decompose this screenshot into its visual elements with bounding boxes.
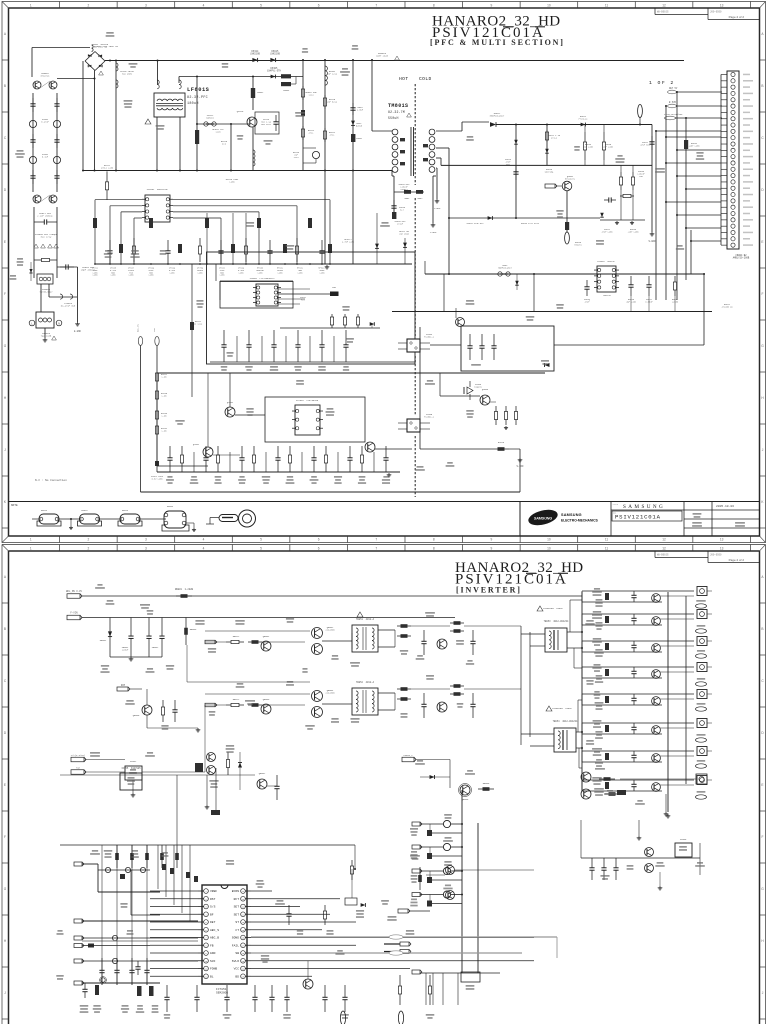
svg-text:COLD: COLD (419, 76, 432, 82)
resistor LN802 dark (252, 77, 254, 111)
svg-text:MBRF10L45CT: MBRF10L45CT (490, 115, 505, 118)
ladder cell 6 wire lower (582, 733, 662, 735)
svg-text:L43B: L43B (230, 181, 236, 184)
net flag riser divider (155, 337, 159, 346)
svg-text:TAC-110B: TAC-110B (41, 335, 52, 338)
svg-text:LN804: LN804 (283, 89, 290, 92)
wire TB853 secondary out fan (567, 631, 582, 633)
svg-text:L203B: L203B (672, 300, 679, 303)
wire TB854 secondary out fan (576, 731, 582, 733)
bridge rectifier DB801 (85, 52, 95, 62)
wire right riser x686 (685, 118, 687, 280)
svg-text:9: 9 (490, 538, 492, 542)
svg-text:TB854 4012-001234: TB854 4012-001234 (553, 720, 578, 723)
svg-text:220uF: 220uF (122, 649, 129, 652)
svg-text:4NF L43B: 4NF L43B (626, 300, 636, 303)
svg-text:12: 12 (662, 4, 666, 8)
svg-text:B 5VR: B 5VR (669, 101, 677, 104)
transformer TB853 (545, 628, 567, 652)
svg-text:F: F (4, 835, 6, 839)
svg-text:L43B: L43B (129, 274, 135, 277)
capacitor CB853 (161, 618, 163, 637)
wire riser x355 junction (354, 845, 356, 869)
svg-text:RB02: RB02 (418, 197, 424, 200)
net flag gnd row (74, 981, 82, 985)
ICT851 pin circles left (204, 889, 209, 894)
wire gray drop x557 (556, 937, 558, 958)
svg-text:B: B (4, 84, 6, 88)
svg-text:F: F (4, 292, 6, 296)
capacitor chain CM819 (515, 125, 517, 219)
ladder cell 3 ballast transistor (652, 644, 661, 653)
transformer TM801S core (410, 127, 412, 176)
ladder cell 6 ballast transistor (652, 726, 661, 735)
transformer TM801S primary (392, 129, 398, 135)
svg-text:LNK520B: LNK520B (270, 53, 280, 56)
svg-text:B: B (4, 627, 6, 631)
opto cell 2 flag (412, 845, 420, 849)
scattered component labels page 1 (17, 150, 24, 152)
svg-text:47uF L43B: 47uF L43B (602, 230, 614, 233)
wire LF801S legs down (156, 117, 158, 171)
svg-text:L43B: L43B (111, 274, 117, 277)
svg-text:QS801: QS801 (227, 401, 234, 404)
isolation dashed line (414, 84, 416, 185)
svg-text:11: 11 (605, 547, 609, 551)
svg-text:2: 2 (87, 4, 89, 8)
net flag CN85A (74, 959, 82, 963)
warning triangle LF801 (145, 119, 151, 124)
ICT851 left wires (150, 890, 198, 892)
svg-text:ICS801 STR-A6159: ICS801 STR-A6159 (296, 399, 319, 402)
snubber box QP816 (255, 112, 279, 134)
gate network upper (205, 630, 310, 632)
lamp loop x303 (303, 147, 316, 149)
ic IC852 small (125, 766, 142, 780)
opto feedback bus B (477, 823, 479, 973)
svg-text:QS802: QS802 (193, 443, 200, 446)
page 2 inner border (9, 550, 760, 552)
svg-text:(C): (C) (222, 143, 226, 146)
resistor RM81G (603, 132, 605, 142)
svg-text:1: 1 (30, 4, 32, 8)
opto cell 3 transistor (420, 870, 443, 872)
ladder cell 1 labels (594, 588, 600, 590)
ladder cell 8 connector (697, 776, 707, 785)
svg-text:SDR18J: SDR18J (206, 117, 215, 120)
svg-text:ICM801 LTV-M6545CLS: ICM801 LTV-M6545CLS (250, 277, 276, 280)
wire TB851 secondary (378, 629, 395, 631)
svg-text:TITLE: TITLE (613, 504, 618, 506)
wire neutral to bridge (57, 78, 95, 80)
ICT851 pin circles right (241, 889, 246, 894)
AC inlet CN801 (36, 312, 54, 328)
wire right riser x666 (665, 106, 667, 300)
svg-text:ABC_S: ABC_S (210, 929, 219, 932)
svg-text:2-GND: 2-GND (430, 231, 437, 234)
svg-text:SVLO: SVLO (232, 960, 239, 963)
opto coupler IC854 (407, 339, 420, 352)
ladder cell 4 wire lower (582, 677, 662, 679)
svg-text:11: 11 (605, 4, 609, 8)
svg-text:6: 6 (318, 547, 320, 551)
svg-text:12: 12 (662, 538, 666, 542)
page 2 revision box top right (654, 551, 656, 558)
svg-text:CT: CT (235, 929, 239, 932)
svg-text:FB8xx: FB8xx (122, 509, 129, 512)
page 1 inner border (9, 8, 760, 536)
wires ICP801 left fan (95, 199, 142, 201)
ladder cell 2 lamp oval (696, 629, 707, 633)
staircase transistors (105, 867, 110, 872)
svg-text:12: 12 (662, 547, 666, 551)
zener cluster mid (238, 763, 242, 768)
capacitor CM81A (393, 200, 395, 206)
ladder cell 7 lamp oval (696, 764, 707, 768)
svg-text:S/S(3.3/5V): S/S(3.3/5V) (71, 754, 85, 757)
opto cell 4 transistor (420, 894, 443, 896)
svg-text:471Lmm 1W: 471Lmm 1W (722, 305, 734, 308)
secondary rail mid (441, 164, 652, 166)
wire b5vr drop (176, 775, 178, 845)
opto cell 4 labels (445, 885, 451, 887)
svg-text:PS2561-1: PS2561-1 (424, 416, 435, 419)
svg-text:ICP801 FAN7527B: ICP801 FAN7527B (146, 188, 168, 191)
svg-text:PSIV121C01A: PSIV121C01A (615, 514, 661, 521)
earth ground E-GND (77, 267, 79, 322)
svg-text:4: 4 (203, 538, 205, 542)
ladder cell 2 wire lower (582, 624, 662, 626)
feedback area box (461, 326, 554, 371)
svg-text:TB852 4012-A: TB852 4012-A (356, 681, 375, 684)
ladder cell 7 join (581, 751, 583, 762)
transistor QS803 (365, 442, 375, 452)
ladder cell 2 capacitor (633, 614, 635, 618)
svg-text:471L: 471L (330, 134, 336, 137)
svg-text:S-GND: S-GND (649, 240, 657, 243)
wire RS816 right (509, 448, 520, 450)
wires ICP801 right fan (173, 199, 330, 201)
ladder cell 7 connector (697, 747, 707, 756)
feedback verticals (443, 274, 445, 312)
svg-text:TN705-334Y: TN705-334Y (39, 291, 53, 294)
connector CN804 pins (731, 72, 735, 76)
opto cell 4 lower wire (430, 903, 462, 905)
svg-text:13: 13 (720, 538, 724, 542)
warning triangle TB854 (546, 706, 552, 711)
opto cell 1 labels (444, 814, 452, 816)
svg-text:LF801S: LF801S (187, 87, 210, 93)
svg-text:47uF: 47uF (585, 300, 591, 303)
transistor QM801 (562, 181, 572, 191)
inductor curls LS801A (49, 296, 77, 298)
svg-text:8: 8 (433, 4, 435, 8)
earth ground inlet (44, 328, 46, 338)
wires output lower join (411, 688, 450, 690)
ladder cell 2 ballast transistor (652, 617, 661, 626)
svg-text:4.7NF L43B: 4.7NF L43B (342, 240, 355, 243)
svg-text:RB822: RB822 (233, 698, 240, 701)
wire TB852 secondary (378, 692, 395, 694)
page 1 revision box top right (654, 8, 656, 15)
wire inter stage y682 (187, 681, 310, 683)
page 1 outer border (2, 2, 766, 543)
svg-text:ICM802 SEM24C: ICM802 SEM24C (597, 260, 615, 263)
page 2 corner diagonals (2, 545, 9, 552)
wire xcap to FB801 (33, 262, 35, 278)
svg-text:4: 4 (203, 547, 205, 551)
mosfet QB853 (261, 704, 271, 714)
svg-text:[INVERTER]: [INVERTER] (456, 586, 522, 595)
svg-text:IC856: IC856 (680, 838, 687, 841)
svg-text:RS816: RS816 (498, 441, 505, 444)
wire AC left drop (31, 48, 33, 78)
ladder cell 8 dark comp (605, 782, 609, 789)
ladder cell 5 capacitor (633, 694, 635, 698)
scattered component labels page 2 (97, 584, 102, 586)
component cluster right top p2ic (419, 867, 421, 890)
svg-text:RB856: RB856 (483, 782, 490, 785)
ladder cell 3 wire lower (582, 651, 662, 653)
net flag CN853 (402, 757, 414, 762)
labels lower cluster (237, 683, 244, 685)
ladder cell 1 capacitor (633, 591, 635, 595)
ground S-GND feedback (519, 458, 521, 460)
svg-text:L43B: L43B (278, 271, 284, 274)
fuse link DM81 (498, 272, 502, 276)
resistor RB01 RB02 crossing (394, 191, 424, 193)
svg-text:6.00uF: 6.00uF (645, 300, 653, 303)
labels fvin cluster (107, 600, 114, 602)
diode DB853 (430, 775, 435, 779)
mid bottom opto cluster (207, 753, 216, 762)
svg-text:E: E (761, 783, 763, 787)
wire LF branch (157, 61, 159, 85)
svg-text:QB856: QB856 (462, 798, 469, 801)
wire mid drop x456 (455, 308, 457, 318)
svg-text:QB857: QB857 (259, 772, 266, 775)
ground bottom rail (388, 473, 390, 475)
svg-text:BF: BF (210, 913, 214, 916)
diode DM817 (490, 122, 496, 127)
svg-text:TB851 4012-A: TB851 4012-A (356, 618, 375, 621)
opto cell 3 labels (444, 861, 451, 863)
wire left drop inside box (156, 373, 158, 472)
ladder cell 4 connector (697, 663, 707, 672)
ladder cell 4 dark comp (605, 669, 609, 676)
ladder cell 8 join (581, 780, 583, 791)
line filter LF801S (154, 93, 185, 117)
vertical sense x303 (302, 60, 304, 171)
output network upper (397, 625, 411, 627)
svg-text:4: 4 (203, 4, 205, 8)
svg-text:W8-B00JS: W8-B00JS (657, 554, 669, 557)
transistor QM804 (456, 318, 465, 327)
net flag CN852 staircase (74, 862, 82, 866)
gate network lower (205, 693, 310, 695)
transformer polarity marks (400, 138, 405, 141)
wire to RS816 (420, 448, 493, 450)
ladder cell 1 dark comp (605, 593, 609, 600)
wire riser x216 (215, 768, 217, 810)
svg-text:HOT: HOT (399, 76, 408, 82)
svg-text:FB: FB (210, 944, 214, 947)
right transistor circuit p2 (581, 772, 591, 782)
secondary low rail y218 (449, 217, 600, 219)
ICT851 right wires (251, 890, 272, 892)
wire main mid rail y373 (157, 372, 545, 374)
ladder cell 5 join (581, 694, 583, 705)
svg-text:B201M: B201M (356, 125, 363, 128)
ladder cell 7 dark comp (605, 753, 609, 760)
ladder cell 6 lamp oval (696, 738, 707, 742)
svg-text:LN802: LN802 (257, 91, 264, 94)
fuse link CP812 (197, 123, 249, 125)
capacitor CM81T right (651, 125, 653, 233)
ladder cell 1 ballast transistor (652, 594, 661, 603)
ntc dark resistor riser x197 (196, 77, 198, 171)
svg-text:RTN2N4TL: RTN2N4TL (565, 178, 576, 181)
svg-text:2: 2 (87, 538, 89, 542)
labels bottom row page1 (167, 476, 172, 478)
transistor QB857 cluster (257, 779, 267, 789)
resistor LN803 (281, 74, 291, 78)
gray control wire FAIL (251, 936, 557, 938)
opto cell 1 flag (412, 822, 420, 826)
svg-text:F: F (762, 835, 764, 839)
samsung logo ellipse (527, 507, 559, 528)
connector CN804 body (727, 71, 739, 249)
ladder cell 7 ballast transistor (652, 754, 661, 763)
ladder cell 6 labels (593, 720, 602, 722)
connector CN804 feed wires (656, 130, 721, 132)
svg-text:INVERTER TRANS: INVERTER TRANS (543, 607, 563, 610)
svg-text:E-GND: E-GND (74, 330, 82, 333)
ladder cell 3 lamp oval (696, 654, 707, 658)
svg-text:2005.10.06: 2005.10.06 (716, 505, 734, 508)
wire BKL_ON rail (82, 595, 582, 597)
wire cn853 (416, 759, 450, 761)
svg-text:NC 1214: NC 1214 (194, 322, 203, 325)
svg-text:10: 10 (547, 4, 551, 8)
choke drawing 2 (80, 514, 100, 524)
svg-text:MBRF10L45CT: MBRF10L45CT (498, 267, 512, 270)
ic ICM801 (256, 284, 278, 306)
choke drawing 4 (164, 511, 186, 528)
wire primary snubber chain (393, 176, 395, 218)
wire feedback top rail (425, 273, 705, 275)
ladder cell 2 wire upper (582, 613, 694, 615)
svg-text:LNF 5214: LNF 5214 (327, 101, 338, 104)
ladder cell 7 wire upper (582, 750, 694, 752)
resistor row y855 (116, 845, 118, 868)
ladder cell 3 connector (697, 637, 707, 646)
wire QM801 down (566, 191, 568, 232)
svg-text:IC852: IC852 (130, 760, 137, 763)
wire secondary pin3 (436, 157, 441, 159)
components QM803 cluster (495, 406, 497, 412)
net flag CN85B (74, 936, 82, 940)
svg-text:0C-47uF 3uH: 0C-47uF 3uH (61, 305, 76, 308)
ladder cell 2 labels (593, 611, 601, 613)
zener series DM811 (581, 123, 586, 127)
opto cell 1 lower wire (430, 832, 462, 834)
ladder cell 2 join (581, 614, 583, 625)
svg-text:Max 250V 4A: Max 250V 4A (93, 46, 107, 49)
transistor QB857b (461, 972, 480, 982)
svg-text:Page 2 of 2: Page 2 of 2 (729, 558, 745, 562)
ground pfc bus (326, 265, 328, 267)
varistor pair top (33, 81, 41, 89)
svg-text:E: E (761, 240, 763, 244)
svg-text:SAMSUNG: SAMSUNG (561, 513, 582, 517)
svg-text:07D471K: 07D471K (41, 75, 50, 78)
svg-text:CN853_1: CN853_1 (403, 754, 413, 757)
svg-text:BL: BL (210, 975, 214, 978)
opto cell 2 transistor (420, 846, 443, 848)
svg-text:SEM24C: SEM24C (603, 294, 612, 297)
ladder cell 6 capacitor (633, 723, 635, 727)
mosfet pair lower (312, 691, 323, 702)
connector CN804 bus bar (720, 75, 722, 246)
svg-text:13: 13 (720, 4, 724, 8)
svg-text:AMBLY20-200B: AMBLY20-200B (733, 257, 750, 260)
svg-text:RB01: RB01 (405, 197, 411, 200)
svg-text:TM801S: TM801S (388, 103, 408, 109)
net flag VDIM right (400, 950, 409, 954)
svg-text:1: 1 (30, 538, 32, 542)
svg-text:L43B: L43B (298, 271, 304, 274)
svg-text:DOC: DOC (613, 513, 616, 515)
bottom component rows (166, 985, 168, 997)
svg-text:BCON: BCON (232, 890, 239, 893)
rail second branch y76 (179, 76, 303, 78)
diode DB851 (109, 618, 111, 658)
svg-text:10: 10 (547, 538, 551, 542)
wire transformer feed (371, 60, 373, 131)
bottom right bus (412, 970, 420, 974)
svg-text:PTV4L24: PTV4L24 (579, 118, 588, 121)
svg-text:471L4: 471L4 (551, 136, 558, 139)
wire staircase drop (130, 870, 132, 915)
choke chain wires (32, 518, 41, 520)
svg-text:RST: RST (210, 898, 216, 901)
ladder cell 4 join (581, 667, 583, 678)
wire right riser x677 (676, 92, 678, 300)
ladder cell 8 wire upper (582, 779, 694, 781)
transistor QS802 (203, 447, 213, 457)
svg-text:DB851: DB851 (100, 639, 107, 642)
svg-text:LN807: LN807 (356, 137, 363, 140)
ladder cell 5 lamp oval (696, 707, 707, 711)
svg-text:FB804: FB804 (167, 505, 174, 508)
svg-text:FAIL: FAIL (232, 944, 239, 947)
ladder cell 3 dark comp (605, 643, 609, 650)
capacitor CB851 (130, 618, 132, 637)
opto cell 3 lower wire (430, 879, 462, 881)
wire gnd bus half bridge (110, 656, 162, 658)
svg-text:E: E (4, 783, 6, 787)
svg-text:L43B: L43B (93, 274, 99, 277)
svg-text:QB855: QB855 (133, 714, 140, 717)
ladder cell 8 lamp oval (696, 795, 707, 799)
ss control flags (71, 757, 84, 762)
opto coupler IC855 (407, 419, 420, 432)
opto cell 4 flag (412, 893, 420, 897)
mosfet pair upper (312, 628, 323, 639)
svg-text:DET 5V: DET 5V (669, 87, 678, 90)
svg-text:171uF: 171uF (397, 222, 404, 225)
